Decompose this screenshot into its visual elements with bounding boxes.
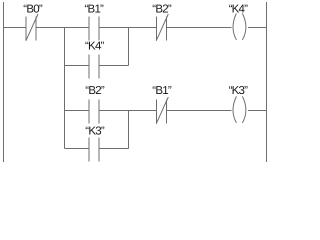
svg-text:“B2”: “B2” [85,85,105,97]
svg-text:“K3”: “K3” [229,85,249,97]
svg-text:“K4”: “K4” [85,40,105,52]
svg-text:“K4”: “K4” [229,3,249,15]
svg-text:“B1”: “B1” [85,3,105,15]
svg-text:“B1”: “B1” [152,85,172,97]
svg-text:“B0”: “B0” [23,3,43,15]
svg-text:“B2”: “B2” [152,3,172,15]
svg-text:“K3”: “K3” [85,126,105,138]
